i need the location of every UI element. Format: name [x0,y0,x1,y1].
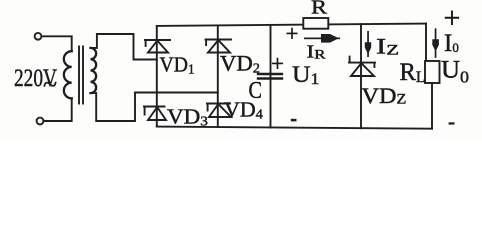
transformer core [79,47,83,104]
wire load branch top [425,24,427,61]
current arrow IR [304,38,340,40]
terminal top-left [35,33,42,40]
wire primary top lead [42,36,72,51]
load resistor RL box [425,61,440,83]
minus mark output [449,122,455,124]
diode VD4 [207,104,231,118]
wire secondary top lead to bridge [91,34,157,60]
wire secondary bottom lead to bridge [91,93,218,122]
transformer T primary winding [64,51,72,98]
capacitor C plates [258,74,282,79]
current arrow Iz [367,31,369,57]
diode VD2 [206,40,232,53]
svg-text:+: + [271,51,284,76]
wire load branch bottom [431,83,433,129]
current arrow I0 [435,28,437,58]
svg-text:R: R [311,0,328,19]
wire top rail [157,24,426,26]
wire capacitor branch [270,25,272,128]
diode VD1 [145,40,170,53]
wire zener branch [360,24,362,128]
svg-text:C: C [249,78,263,104]
wire bridge left column [156,26,158,127]
resistor R box [303,18,328,29]
diode VD3 [144,107,166,121]
svg-text:+: + [286,21,299,46]
wire bottom rail [157,127,432,129]
terminal bottom-left [37,118,44,125]
transformer T secondary winding [91,48,97,93]
wire primary bottom lead [44,98,72,121]
svg-text:+: + [444,2,461,35]
zener diode VDz [349,57,375,76]
minus mark U1 [291,119,297,122]
wire bridge right column [217,25,219,127]
svg-text:~: ~ [43,70,57,99]
